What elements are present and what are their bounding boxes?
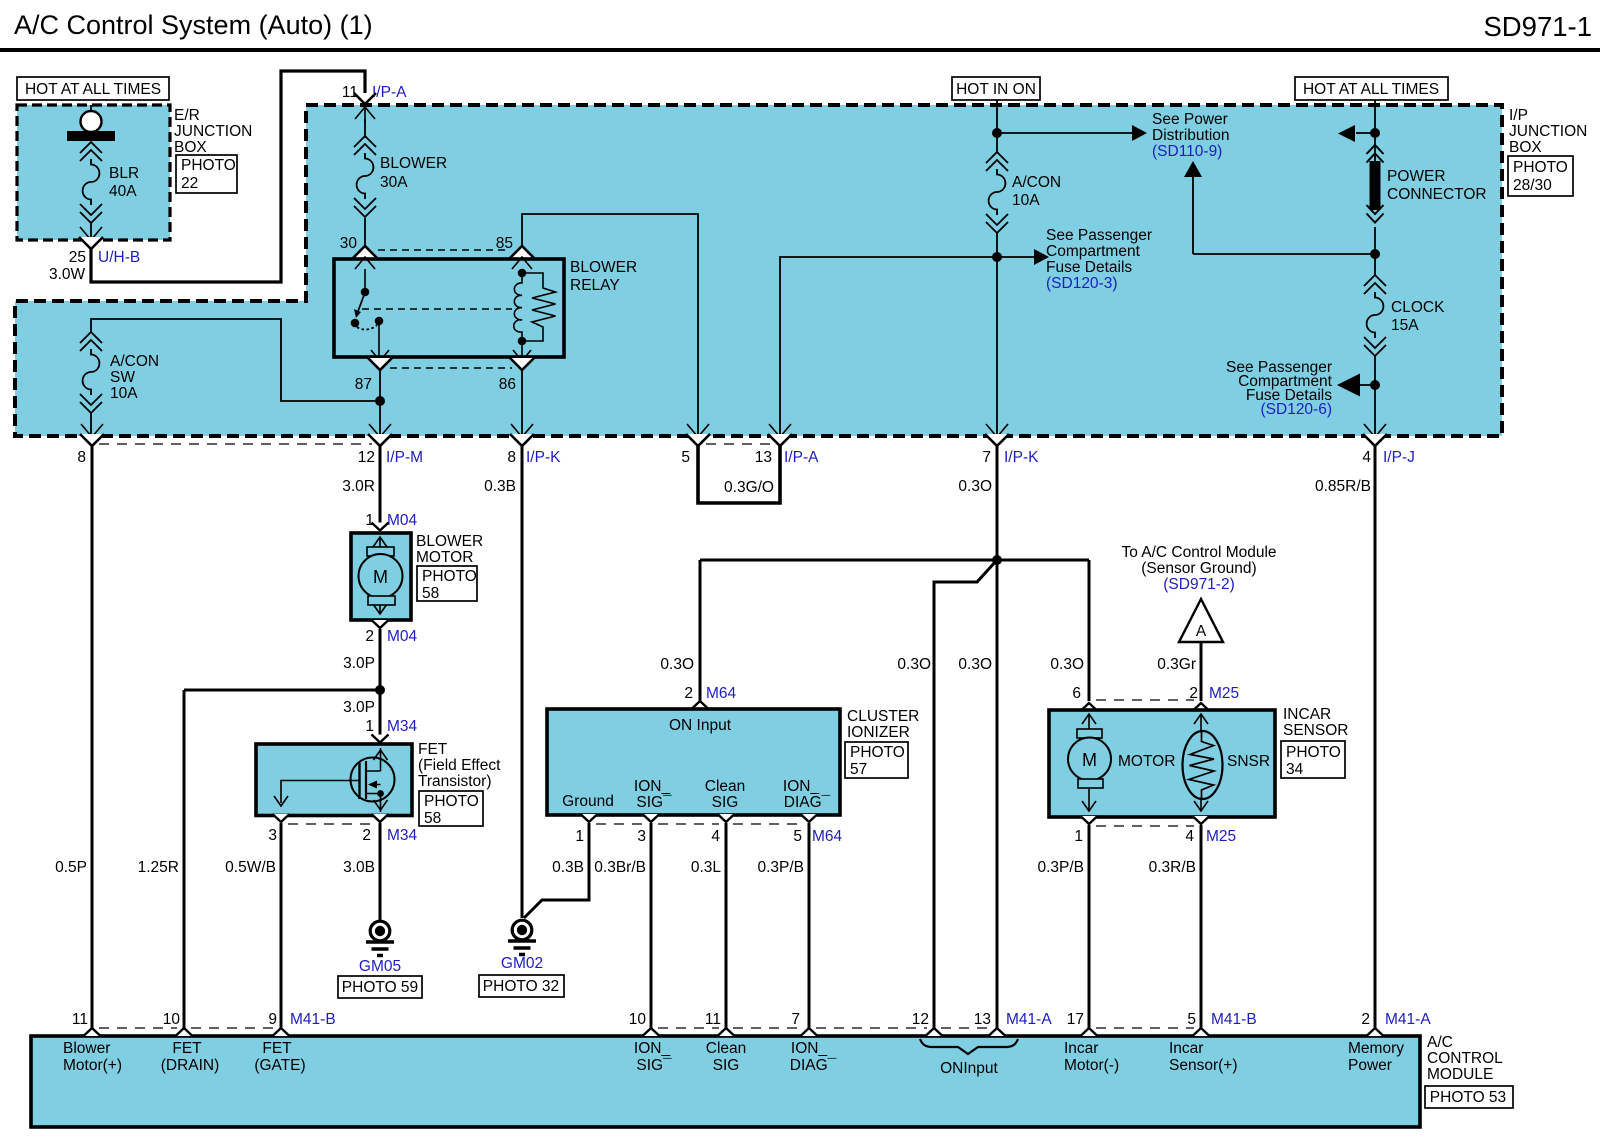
svg-text:CONNECTOR: CONNECTOR bbox=[1387, 186, 1487, 203]
svg-text:CLOCK: CLOCK bbox=[1391, 299, 1445, 316]
svg-text:To A/C Control Module: To A/C Control Module bbox=[1121, 544, 1276, 561]
svg-text:SW: SW bbox=[110, 369, 135, 386]
svg-text:0.3G/O: 0.3G/O bbox=[724, 479, 774, 496]
svg-text:M04: M04 bbox=[387, 512, 418, 529]
svg-text:(SD971-2): (SD971-2) bbox=[1163, 576, 1235, 593]
svg-text:0.5P: 0.5P bbox=[55, 859, 87, 876]
svg-text:3.0W: 3.0W bbox=[49, 266, 86, 283]
svg-text:7: 7 bbox=[982, 449, 991, 466]
svg-text:2: 2 bbox=[1361, 1011, 1370, 1028]
svg-text:DIAG¯: DIAG¯ bbox=[790, 1057, 837, 1074]
svg-text:1: 1 bbox=[575, 828, 584, 845]
svg-text:(Sensor Ground): (Sensor Ground) bbox=[1141, 560, 1256, 577]
svg-text:0.5W/B: 0.5W/B bbox=[225, 859, 276, 876]
svg-text:58: 58 bbox=[424, 810, 441, 827]
svg-text:87: 87 bbox=[355, 376, 372, 393]
svg-text:BLOWER: BLOWER bbox=[416, 533, 483, 550]
svg-text:M34: M34 bbox=[387, 718, 418, 735]
svg-text:SIG: SIG bbox=[712, 794, 739, 811]
svg-text:M34: M34 bbox=[387, 827, 418, 844]
svg-text:(SD110-9): (SD110-9) bbox=[1152, 143, 1222, 160]
svg-text:3: 3 bbox=[637, 828, 646, 845]
svg-text:0.3B: 0.3B bbox=[484, 478, 516, 495]
svg-text:7: 7 bbox=[791, 1011, 800, 1028]
svg-text:IONIZER: IONIZER bbox=[847, 724, 910, 741]
svg-text:M64: M64 bbox=[706, 685, 737, 702]
svg-text:MOTOR: MOTOR bbox=[416, 549, 473, 566]
svg-text:15A: 15A bbox=[1391, 317, 1419, 334]
svg-text:PHOTO 32: PHOTO 32 bbox=[483, 978, 559, 995]
svg-text:4: 4 bbox=[711, 828, 720, 845]
svg-text:A/CON: A/CON bbox=[1012, 174, 1061, 191]
svg-text:POWER: POWER bbox=[1387, 168, 1446, 185]
svg-text:PHOTO: PHOTO bbox=[422, 568, 477, 585]
svg-text:Compartment: Compartment bbox=[1046, 243, 1141, 260]
svg-text:8: 8 bbox=[77, 449, 86, 466]
svg-text:Sensor(+): Sensor(+) bbox=[1169, 1057, 1238, 1074]
svg-text:0.3P/B: 0.3P/B bbox=[1037, 859, 1084, 876]
svg-text:10A: 10A bbox=[1012, 192, 1040, 209]
svg-text:5: 5 bbox=[681, 449, 690, 466]
svg-text:PHOTO: PHOTO bbox=[424, 793, 479, 810]
svg-text:A/CON: A/CON bbox=[110, 353, 159, 370]
svg-text:3.0P: 3.0P bbox=[343, 655, 375, 672]
svg-text:A/C: A/C bbox=[1427, 1034, 1453, 1051]
svg-text:3.0R: 3.0R bbox=[342, 478, 375, 495]
svg-text:Blower: Blower bbox=[63, 1040, 110, 1057]
svg-text:ONInput: ONInput bbox=[940, 1060, 998, 1077]
svg-text:M41-A: M41-A bbox=[1385, 1011, 1431, 1028]
svg-text:0.3P/B: 0.3P/B bbox=[757, 859, 804, 876]
svg-text:0.3Br/B: 0.3Br/B bbox=[594, 859, 646, 876]
svg-text:Clean: Clean bbox=[705, 778, 746, 795]
svg-text:13: 13 bbox=[755, 449, 772, 466]
svg-text:I/P-K: I/P-K bbox=[526, 449, 561, 466]
svg-text:I/P-A: I/P-A bbox=[372, 84, 407, 101]
svg-text:10A: 10A bbox=[110, 385, 138, 402]
svg-text:RELAY: RELAY bbox=[570, 277, 620, 294]
svg-text:See Power: See Power bbox=[1152, 111, 1228, 128]
svg-text:2: 2 bbox=[684, 685, 693, 702]
svg-text:SIG: SIG bbox=[713, 1057, 740, 1074]
svg-text:I/P: I/P bbox=[1509, 107, 1528, 124]
svg-text:25: 25 bbox=[69, 249, 86, 266]
svg-text:57: 57 bbox=[850, 761, 867, 778]
svg-text:SD971-1: SD971-1 bbox=[1483, 11, 1592, 42]
svg-text:5: 5 bbox=[793, 828, 802, 845]
svg-text:E/R: E/R bbox=[174, 107, 200, 124]
svg-text:M: M bbox=[1082, 750, 1097, 770]
svg-text:34: 34 bbox=[1286, 761, 1304, 778]
svg-text:0.3O: 0.3O bbox=[1050, 656, 1084, 673]
svg-text:0.85R/B: 0.85R/B bbox=[1315, 478, 1371, 495]
svg-text:5: 5 bbox=[1187, 1011, 1196, 1028]
svg-text:1: 1 bbox=[365, 512, 374, 529]
svg-text:28/30: 28/30 bbox=[1513, 177, 1552, 194]
svg-text:1.25R: 1.25R bbox=[138, 859, 179, 876]
svg-text:30: 30 bbox=[340, 235, 358, 252]
svg-text:(SD120-3): (SD120-3) bbox=[1046, 275, 1118, 292]
svg-text:M41-B: M41-B bbox=[290, 1011, 336, 1028]
svg-text:BLOWER: BLOWER bbox=[570, 259, 637, 276]
svg-text:0.3O: 0.3O bbox=[660, 656, 694, 673]
svg-text:0.3Gr: 0.3Gr bbox=[1157, 656, 1196, 673]
svg-text:BLR: BLR bbox=[109, 165, 139, 182]
svg-text:FET: FET bbox=[262, 1040, 292, 1057]
svg-text:CONTROL: CONTROL bbox=[1427, 1050, 1503, 1067]
svg-text:MOTOR: MOTOR bbox=[1118, 753, 1175, 770]
svg-text:58: 58 bbox=[422, 585, 439, 602]
svg-text:PHOTO: PHOTO bbox=[1286, 744, 1341, 761]
svg-text:13: 13 bbox=[974, 1011, 991, 1028]
svg-text:PHOTO 53: PHOTO 53 bbox=[1430, 1089, 1506, 1106]
svg-text:ION_: ION_ bbox=[634, 778, 671, 795]
svg-text:SENSOR: SENSOR bbox=[1283, 722, 1348, 739]
svg-text:Clean: Clean bbox=[706, 1040, 747, 1057]
svg-text:4: 4 bbox=[1362, 449, 1371, 466]
svg-text:0.3O: 0.3O bbox=[958, 656, 992, 673]
svg-text:PHOTO: PHOTO bbox=[1513, 159, 1568, 176]
svg-text:2: 2 bbox=[362, 827, 371, 844]
svg-text:FET: FET bbox=[418, 741, 448, 758]
svg-text:PHOTO 59: PHOTO 59 bbox=[342, 979, 418, 996]
svg-text:ION_: ION_ bbox=[791, 1040, 828, 1057]
svg-text:ION_: ION_ bbox=[783, 778, 820, 795]
svg-text:(DRAIN): (DRAIN) bbox=[161, 1057, 220, 1074]
svg-text:MODULE: MODULE bbox=[1427, 1066, 1493, 1083]
svg-text:Incar: Incar bbox=[1064, 1040, 1098, 1057]
svg-text:6: 6 bbox=[1072, 685, 1081, 702]
svg-text:11: 11 bbox=[342, 84, 358, 101]
svg-text:3: 3 bbox=[268, 827, 277, 844]
svg-text:Power: Power bbox=[1348, 1057, 1392, 1074]
svg-text:(SD120-6): (SD120-6) bbox=[1261, 401, 1333, 418]
svg-text:M25: M25 bbox=[1206, 828, 1236, 845]
svg-text:I/P-J: I/P-J bbox=[1383, 449, 1415, 466]
svg-text:U/H-B: U/H-B bbox=[98, 249, 140, 266]
svg-text:SNSR: SNSR bbox=[1227, 753, 1270, 770]
svg-text:BLOWER: BLOWER bbox=[380, 155, 447, 172]
svg-text:Memory: Memory bbox=[1348, 1040, 1404, 1057]
svg-text:86: 86 bbox=[499, 376, 516, 393]
svg-text:12: 12 bbox=[912, 1011, 929, 1028]
svg-text:0.3O: 0.3O bbox=[897, 656, 931, 673]
svg-text:Fuse Details: Fuse Details bbox=[1046, 259, 1132, 276]
svg-text:PHOTO: PHOTO bbox=[181, 157, 236, 174]
svg-text:BOX: BOX bbox=[174, 139, 207, 156]
svg-text:Motor(+): Motor(+) bbox=[63, 1057, 122, 1074]
svg-text:A/C Control System (Auto) (1): A/C Control System (Auto) (1) bbox=[14, 10, 373, 40]
svg-text:INCAR: INCAR bbox=[1283, 706, 1331, 723]
svg-text:2: 2 bbox=[365, 628, 374, 645]
svg-text:ON Input: ON Input bbox=[669, 717, 732, 734]
svg-text:10: 10 bbox=[163, 1011, 181, 1028]
svg-text:30A: 30A bbox=[380, 174, 408, 191]
svg-text:CLUSTER: CLUSTER bbox=[847, 708, 919, 725]
svg-text:SIG¯: SIG¯ bbox=[636, 1057, 672, 1074]
svg-text:Motor(-): Motor(-) bbox=[1064, 1057, 1119, 1074]
svg-text:PHOTO: PHOTO bbox=[850, 744, 905, 761]
svg-text:I/P-A: I/P-A bbox=[784, 449, 819, 466]
svg-text:JUNCTION: JUNCTION bbox=[1509, 123, 1587, 140]
svg-text:Transistor): Transistor) bbox=[418, 773, 492, 790]
svg-text:12: 12 bbox=[358, 449, 375, 466]
svg-text:M25: M25 bbox=[1209, 685, 1239, 702]
svg-text:HOT AT ALL TIMES: HOT AT ALL TIMES bbox=[25, 81, 161, 98]
svg-text:HOT IN ON: HOT IN ON bbox=[956, 81, 1036, 98]
svg-text:1: 1 bbox=[365, 718, 374, 735]
svg-text:M04: M04 bbox=[387, 628, 418, 645]
svg-text:0.3B: 0.3B bbox=[552, 859, 584, 876]
svg-text:1: 1 bbox=[1074, 828, 1083, 845]
svg-text:JUNCTION: JUNCTION bbox=[174, 123, 252, 140]
svg-text:See Passenger: See Passenger bbox=[1046, 227, 1152, 244]
svg-text:I/P-K: I/P-K bbox=[1004, 449, 1039, 466]
svg-text:M41-A: M41-A bbox=[1006, 1011, 1052, 1028]
svg-text:0.3R/B: 0.3R/B bbox=[1149, 859, 1196, 876]
svg-text:0.3O: 0.3O bbox=[958, 478, 992, 495]
svg-text:(Field Effect: (Field Effect bbox=[418, 757, 501, 774]
svg-text:M: M bbox=[373, 567, 388, 587]
svg-text:SIG¯: SIG¯ bbox=[636, 794, 672, 811]
svg-text:3.0P: 3.0P bbox=[343, 699, 375, 716]
svg-text:GM05: GM05 bbox=[359, 958, 401, 975]
svg-text:ION_: ION_ bbox=[634, 1040, 671, 1057]
svg-text:HOT AT ALL TIMES: HOT AT ALL TIMES bbox=[1303, 81, 1439, 98]
svg-text:9: 9 bbox=[268, 1011, 277, 1028]
svg-text:4: 4 bbox=[1185, 828, 1194, 845]
svg-text:Incar: Incar bbox=[1169, 1040, 1203, 1057]
svg-text:0.3L: 0.3L bbox=[691, 859, 722, 876]
svg-text:8: 8 bbox=[507, 449, 516, 466]
svg-text:Ground: Ground bbox=[562, 793, 614, 810]
svg-text:M41-B: M41-B bbox=[1211, 1011, 1257, 1028]
svg-text:BOX: BOX bbox=[1509, 139, 1542, 156]
svg-text:FET: FET bbox=[172, 1040, 202, 1057]
svg-text:GM02: GM02 bbox=[501, 955, 543, 972]
svg-text:10: 10 bbox=[629, 1011, 647, 1028]
svg-text:DIAG¯: DIAG¯ bbox=[784, 794, 831, 811]
svg-text:11: 11 bbox=[72, 1011, 88, 1028]
svg-text:Distribution: Distribution bbox=[1152, 127, 1230, 144]
svg-text:(GATE): (GATE) bbox=[254, 1057, 305, 1074]
svg-text:M64: M64 bbox=[812, 828, 843, 845]
svg-text:17: 17 bbox=[1067, 1011, 1084, 1028]
svg-text:I/P-M: I/P-M bbox=[386, 449, 423, 466]
svg-text:40A: 40A bbox=[109, 183, 137, 200]
svg-text:11: 11 bbox=[705, 1011, 721, 1028]
svg-text:22: 22 bbox=[181, 175, 198, 192]
svg-text:3.0B: 3.0B bbox=[343, 859, 375, 876]
svg-text:A: A bbox=[1196, 623, 1207, 640]
